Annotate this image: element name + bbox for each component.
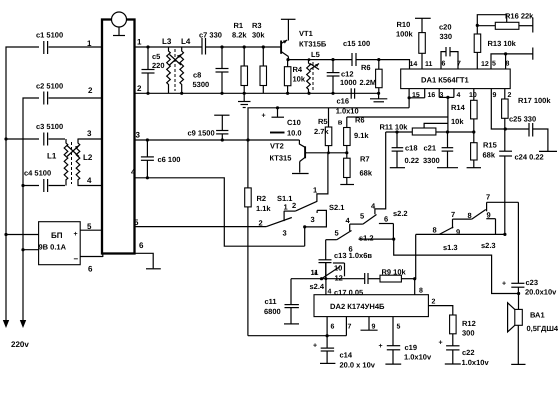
svg-text:5: 5 bbox=[134, 218, 139, 227]
wire BP plus input bbox=[4, 233, 38, 236]
resistor R9 bbox=[380, 268, 416, 283]
svg-text:C10: C10 bbox=[287, 118, 301, 127]
svg-text:c6 100: c6 100 bbox=[158, 155, 181, 164]
wire pins 5 8 terminal bbox=[491, 48, 533, 70]
svg-text:6: 6 bbox=[442, 61, 446, 68]
svg-text:3: 3 bbox=[283, 229, 287, 238]
svg-text:2: 2 bbox=[292, 201, 296, 210]
capacitor C21 bbox=[423, 132, 458, 168]
svg-text:5: 5 bbox=[87, 222, 92, 231]
capacitor C7 bbox=[199, 31, 222, 55]
capacitor C11 bbox=[264, 279, 299, 324]
svg-text:7: 7 bbox=[348, 324, 352, 331]
svg-text:220: 220 bbox=[152, 61, 165, 70]
svg-text:10: 10 bbox=[334, 264, 342, 273]
capacitor C25 bbox=[504, 115, 557, 152]
pin 2 wire DA2 bbox=[428, 299, 452, 316]
L1 L2 tuning arrow bbox=[67, 146, 79, 157]
wire R5 bottom to S1.1 contact1 bbox=[313, 153, 328, 202]
wire 3 left bbox=[4, 137, 102, 140]
svg-text:s1.2: s1.2 bbox=[359, 234, 374, 243]
capacitor C24 bbox=[499, 129, 544, 235]
svg-text:c1 5100: c1 5100 bbox=[36, 31, 63, 40]
svg-text:−: − bbox=[74, 255, 79, 264]
pin 8 stub DA2 bbox=[415, 279, 423, 295]
svg-text:c18: c18 bbox=[405, 144, 418, 153]
pins 15 16 bracket bbox=[408, 89, 436, 108]
pin 14 wire from C15 bbox=[379, 60, 418, 69]
L5 core dashed bbox=[312, 62, 314, 91]
L5 tuning arrow bbox=[310, 64, 319, 70]
svg-text:R16 22k: R16 22k bbox=[505, 12, 534, 21]
ground under R1 bbox=[238, 92, 251, 108]
capacitor C2 bbox=[36, 82, 63, 105]
ground under VT2 bbox=[292, 173, 309, 175]
svg-text:в: в bbox=[338, 118, 343, 127]
op-amp chip DA1 K564GT1 bbox=[401, 69, 511, 89]
svg-text:1: 1 bbox=[87, 39, 92, 48]
svg-text:9: 9 bbox=[456, 228, 460, 237]
svg-text:12: 12 bbox=[481, 61, 489, 68]
capacitor C4 bbox=[24, 169, 51, 193]
svg-text:+: + bbox=[379, 343, 383, 350]
svg-text:c5: c5 bbox=[152, 52, 160, 61]
svg-text:10k: 10k bbox=[451, 117, 464, 126]
svg-text:0,5ГДШ4: 0,5ГДШ4 bbox=[527, 324, 559, 333]
svg-text:c17 0.05: c17 0.05 bbox=[334, 288, 363, 297]
svg-text:3: 3 bbox=[136, 131, 141, 140]
inductor L3 bbox=[162, 37, 172, 93]
svg-text:3: 3 bbox=[87, 129, 92, 138]
power supply BP box bbox=[39, 222, 81, 265]
capacitor C10 bbox=[262, 108, 302, 138]
svg-text:2: 2 bbox=[508, 92, 512, 99]
svg-text:S1.1: S1.1 bbox=[277, 194, 292, 203]
resistor R6 2.2M bbox=[360, 60, 383, 94]
svg-text:c23: c23 bbox=[526, 278, 539, 287]
svg-text:2.7k: 2.7k bbox=[314, 127, 329, 136]
svg-text:5300: 5300 bbox=[193, 80, 210, 89]
wire DA1 pin15 to C10 bus bbox=[248, 106, 409, 140]
svg-text:7: 7 bbox=[486, 193, 490, 202]
capacitor C9 bbox=[188, 115, 230, 140]
pin 4 stub DA2 bbox=[326, 263, 332, 296]
svg-text:R7: R7 bbox=[360, 155, 370, 164]
wire s2.3 contact7 to C23 bbox=[487, 202, 519, 283]
resistor R13 bbox=[474, 24, 516, 69]
svg-text:15: 15 bbox=[412, 92, 420, 99]
svg-text:3: 3 bbox=[440, 92, 444, 99]
band switch drum block bbox=[102, 20, 135, 254]
svg-text:8: 8 bbox=[468, 211, 472, 220]
svg-text:300: 300 bbox=[462, 329, 475, 338]
svg-text:L1: L1 bbox=[47, 152, 57, 161]
svg-text:c19: c19 bbox=[405, 343, 418, 352]
svg-text:L2: L2 bbox=[83, 153, 93, 162]
svg-text:R11 10k: R11 10k bbox=[380, 123, 409, 132]
transistor VT1 bbox=[281, 19, 327, 59]
svg-text:6: 6 bbox=[139, 241, 144, 250]
switch s1.3 bbox=[416, 219, 505, 279]
switch S2.1 arm bbox=[326, 203, 352, 240]
svg-text:8: 8 bbox=[419, 288, 423, 295]
svg-text:1: 1 bbox=[284, 203, 288, 212]
svg-text:0.22: 0.22 bbox=[405, 156, 420, 165]
svg-text:c9 1500: c9 1500 bbox=[188, 129, 215, 138]
svg-text:11: 11 bbox=[425, 61, 433, 68]
svg-text:c3 5100: c3 5100 bbox=[36, 122, 63, 131]
resistor R17 bbox=[502, 89, 552, 129]
collector wire VT2 to R5 R7 bbox=[308, 151, 349, 154]
wire 4 left bbox=[21, 184, 102, 187]
resistor R15 bbox=[467, 132, 497, 168]
svg-text:s2.3: s2.3 bbox=[481, 241, 496, 250]
svg-text:DA1 К564ГТ1: DA1 К564ГТ1 bbox=[421, 76, 470, 85]
svg-text:5: 5 bbox=[397, 324, 401, 331]
svg-text:2: 2 bbox=[137, 84, 142, 93]
capacitor C12 bbox=[327, 60, 357, 94]
inductor L4 bbox=[180, 37, 191, 93]
svg-text:1: 1 bbox=[137, 38, 142, 47]
node pin3 left bbox=[87, 129, 92, 138]
wire 5 right supply bbox=[134, 218, 266, 227]
capacitor C13 bbox=[319, 240, 373, 279]
svg-text:6800: 6800 bbox=[264, 307, 281, 316]
resistor R10 bbox=[396, 18, 433, 69]
svg-text:+: + bbox=[262, 113, 266, 120]
svg-text:+: + bbox=[313, 343, 317, 350]
svg-text:3300: 3300 bbox=[423, 156, 440, 165]
resistor R1 bbox=[232, 21, 248, 93]
svg-text:6: 6 bbox=[331, 324, 335, 331]
capacitor C19 bbox=[379, 343, 432, 364]
svg-text:12: 12 bbox=[335, 274, 343, 283]
capacitor C20 pins 6 7 bbox=[439, 23, 461, 70]
svg-text:5: 5 bbox=[335, 229, 339, 238]
svg-text:c22: c22 bbox=[462, 348, 475, 357]
switch S1.1 contact3 bracket bbox=[303, 210, 326, 246]
svg-text:7: 7 bbox=[451, 210, 455, 219]
capacitor C18 bbox=[390, 132, 419, 168]
svg-text:100k: 100k bbox=[396, 30, 414, 39]
svg-text:7: 7 bbox=[457, 61, 461, 68]
wire R11 to s2.2 contact4 bbox=[375, 132, 386, 214]
svg-text:R12: R12 bbox=[462, 319, 476, 328]
svg-text:c8: c8 bbox=[193, 71, 201, 80]
svg-text:9: 9 bbox=[372, 324, 376, 331]
wire 1 left bbox=[6, 47, 102, 322]
potentiometer R11 bbox=[380, 123, 476, 136]
svg-text:1: 1 bbox=[313, 186, 317, 195]
svg-text:c13 1.0x6в: c13 1.0x6в bbox=[334, 251, 372, 260]
svg-text:c7 330: c7 330 bbox=[199, 31, 222, 40]
inductor L5 bbox=[307, 50, 320, 93]
resistor R3 bbox=[252, 21, 267, 93]
svg-text:КТ315: КТ315 bbox=[270, 154, 292, 163]
switch s2.2 contact6 stub bbox=[379, 215, 394, 240]
svg-text:L4: L4 bbox=[181, 37, 191, 46]
capacitor C8 bbox=[193, 47, 229, 93]
svg-text:68k: 68k bbox=[360, 169, 373, 178]
resistor R12 bbox=[450, 315, 476, 346]
svg-text:1.0x10v: 1.0x10v bbox=[462, 358, 490, 367]
svg-text:+: + bbox=[74, 231, 78, 238]
resistor R6 9.1k bbox=[344, 116, 370, 153]
svg-text:220v: 220v bbox=[11, 340, 29, 349]
capacitor C22 bbox=[439, 340, 490, 368]
svg-text:R4: R4 bbox=[293, 65, 303, 74]
svg-text:L3: L3 bbox=[162, 37, 172, 46]
svg-text:c16: c16 bbox=[337, 97, 350, 106]
svg-text:68k: 68k bbox=[483, 151, 496, 160]
resistor R14 bbox=[451, 89, 477, 133]
svg-text:4: 4 bbox=[457, 92, 461, 99]
svg-text:8.2k: 8.2k bbox=[232, 31, 247, 40]
svg-text:R15: R15 bbox=[483, 141, 497, 150]
svg-text:R5: R5 bbox=[318, 117, 328, 126]
svg-text:c15 100: c15 100 bbox=[343, 39, 370, 48]
svg-text:4: 4 bbox=[328, 289, 332, 296]
inductor L1 bbox=[47, 139, 68, 186]
svg-text:c25 330: c25 330 bbox=[509, 115, 536, 124]
svg-text:c24 0.22: c24 0.22 bbox=[515, 153, 544, 162]
svg-text:2: 2 bbox=[259, 219, 263, 228]
svg-text:10: 10 bbox=[469, 92, 477, 99]
svg-text:c11: c11 bbox=[265, 297, 277, 306]
wire 6 right to ground bbox=[135, 241, 161, 269]
svg-text:10k: 10k bbox=[293, 75, 306, 84]
wire R6 top to DA1 pins34 bbox=[347, 116, 448, 118]
svg-text:c21: c21 bbox=[424, 144, 437, 153]
svg-text:c2 5100: c2 5100 bbox=[36, 82, 63, 91]
svg-text:1.0x10v: 1.0x10v bbox=[404, 353, 432, 362]
capacitor C1 bbox=[36, 31, 63, 55]
svg-text:330: 330 bbox=[440, 32, 453, 41]
resistor R4 bbox=[284, 60, 305, 94]
switch S1.1 upper arm bbox=[277, 194, 317, 212]
svg-text:R17 100k: R17 100k bbox=[518, 96, 551, 105]
svg-text:6: 6 bbox=[88, 265, 93, 274]
pin 5 and C19 bbox=[393, 317, 401, 346]
svg-text:c14: c14 bbox=[340, 351, 353, 360]
svg-text:5: 5 bbox=[492, 61, 496, 68]
pin 7 stub DA2 bbox=[346, 317, 351, 336]
svg-text:БП: БП bbox=[51, 231, 63, 240]
switch s2.2 contact and arm bbox=[350, 202, 408, 232]
svg-text:c4 5100: c4 5100 bbox=[24, 169, 51, 178]
svg-text:2: 2 bbox=[88, 86, 93, 95]
R16 wiper bracket bbox=[477, 15, 506, 26]
svg-text:4: 4 bbox=[87, 176, 92, 185]
wire BP plus to block pin5 bbox=[80, 222, 102, 231]
svg-text:9: 9 bbox=[487, 211, 491, 220]
svg-text:R14: R14 bbox=[451, 103, 466, 112]
node pin2 left bbox=[88, 86, 93, 95]
resistor R5 bbox=[314, 108, 332, 153]
emitter wire L5 bus bbox=[286, 58, 380, 61]
capacitor C5 bbox=[142, 47, 165, 93]
capacitor C23 bbox=[502, 278, 557, 297]
pin 9 wire to R17 node bbox=[491, 89, 505, 129]
capacitor C16 bbox=[336, 88, 359, 126]
switch s2.4 bbox=[310, 263, 345, 291]
capacitor C14 bbox=[313, 343, 376, 370]
pin 9 ground DA2 bbox=[361, 317, 378, 331]
svg-text:10.0: 10.0 bbox=[287, 129, 302, 138]
resistor R7 bbox=[344, 153, 373, 185]
svg-text:R3: R3 bbox=[252, 21, 262, 30]
svg-text:ВА1: ВА1 bbox=[530, 311, 545, 320]
pins 3 4 bracket bbox=[439, 89, 460, 132]
svg-text:2.2M: 2.2M bbox=[360, 78, 377, 87]
svg-text:R6: R6 bbox=[361, 63, 371, 72]
ground bus bottom bbox=[248, 334, 347, 337]
svg-text:8: 8 bbox=[506, 61, 510, 68]
wire 2 left bbox=[23, 98, 102, 322]
L3 L4 core dashed bbox=[174, 49, 176, 91]
capacitor C6 bbox=[141, 140, 181, 178]
svg-text:VT2: VT2 bbox=[270, 142, 284, 151]
svg-text:8: 8 bbox=[433, 226, 437, 235]
pin 6 and C14 bbox=[327, 317, 334, 349]
svg-text:3: 3 bbox=[311, 215, 315, 224]
antenna WA bbox=[112, 12, 127, 36]
svg-text:9: 9 bbox=[493, 92, 497, 99]
svg-text:R13 10k: R13 10k bbox=[488, 39, 517, 48]
resistor R2 bbox=[245, 140, 272, 336]
svg-text:КТ315Б: КТ315Б bbox=[299, 40, 327, 49]
node pin4 left bbox=[87, 176, 92, 185]
svg-text:R10: R10 bbox=[397, 20, 411, 29]
ground under R6 bbox=[370, 92, 387, 102]
svg-text:14: 14 bbox=[410, 61, 418, 68]
node pin1 left bbox=[87, 39, 92, 48]
wire BP minus input bbox=[21, 248, 38, 251]
svg-text:6: 6 bbox=[384, 215, 388, 224]
svg-text:9.1k: 9.1k bbox=[354, 131, 369, 140]
svg-text:4: 4 bbox=[131, 168, 136, 177]
capacitor C17 bbox=[334, 273, 380, 297]
svg-text:R9 10k: R9 10k bbox=[382, 268, 407, 277]
svg-text:R2: R2 bbox=[257, 194, 267, 203]
speaker BA1 bbox=[508, 294, 559, 365]
svg-text:s2.2: s2.2 bbox=[393, 209, 408, 218]
transistor VT2 bbox=[270, 140, 308, 173]
svg-text:20.0 x 10v: 20.0 x 10v bbox=[340, 361, 376, 370]
svg-text:s1.3: s1.3 bbox=[443, 243, 458, 252]
inductor L2 bbox=[76, 139, 93, 186]
svg-text:30k: 30k bbox=[252, 31, 265, 40]
svg-text:20.0x10v: 20.0x10v bbox=[525, 288, 557, 297]
wire BP minus to block pin6 bbox=[80, 253, 103, 274]
svg-text:R1: R1 bbox=[234, 21, 244, 30]
svg-text:+: + bbox=[439, 340, 443, 347]
svg-text:9В 0.1А: 9В 0.1А bbox=[39, 243, 67, 252]
svg-text:s2.4: s2.4 bbox=[310, 282, 325, 291]
svg-text:2: 2 bbox=[432, 299, 436, 306]
wire DA2 input bus bbox=[291, 271, 365, 281]
wire 1 right rf bbox=[135, 38, 282, 49]
L3 L4 tuning arrow bbox=[170, 55, 182, 66]
capacitor C15 bbox=[343, 39, 370, 66]
wire 3 right c9 bus bbox=[135, 131, 300, 142]
wire 4 right c6 bus bbox=[131, 168, 305, 247]
svg-text:+: + bbox=[502, 281, 506, 288]
svg-text:L5: L5 bbox=[311, 50, 320, 59]
svg-text:DA2 К174УН4Б: DA2 К174УН4Б bbox=[330, 302, 385, 311]
svg-text:c20: c20 bbox=[439, 23, 452, 32]
mains arrows 220v bbox=[3, 320, 30, 349]
switch S1.1 lower arm bbox=[259, 211, 292, 237]
audio amp chip DA2 K174UN4B bbox=[314, 295, 428, 317]
switch s2.3 bbox=[451, 193, 496, 251]
svg-text:16: 16 bbox=[428, 92, 436, 99]
svg-text:VT1: VT1 bbox=[299, 29, 313, 38]
svg-text:11: 11 bbox=[311, 268, 319, 277]
wire 2 right rf bbox=[135, 84, 379, 95]
L1 L2 core dashed bbox=[71, 142, 73, 184]
capacitor C3 bbox=[36, 122, 63, 146]
ground under R7 bbox=[340, 184, 354, 186]
svg-text:1000: 1000 bbox=[340, 78, 357, 87]
wire s1.2 bbox=[359, 234, 519, 294]
svg-text:5: 5 bbox=[360, 212, 364, 221]
svg-text:1.1k: 1.1k bbox=[256, 204, 271, 213]
resistor R16 bbox=[477, 12, 534, 33]
switch s2.3 contact9 stub bbox=[486, 211, 506, 236]
svg-text:S2.1: S2.1 bbox=[329, 203, 344, 212]
